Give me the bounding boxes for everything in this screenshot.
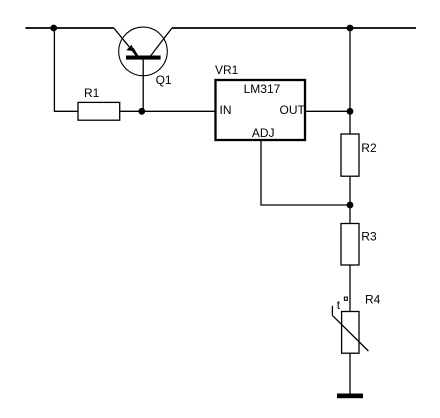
svg-text:Q1: Q1 bbox=[156, 73, 172, 87]
svg-text:LM317: LM317 bbox=[244, 82, 281, 96]
svg-text:VR1: VR1 bbox=[215, 63, 239, 77]
svg-text:R3: R3 bbox=[361, 230, 377, 244]
svg-text:R2: R2 bbox=[361, 141, 377, 155]
svg-text:R4: R4 bbox=[365, 293, 381, 307]
svg-text:R1: R1 bbox=[84, 86, 100, 100]
svg-text:IN: IN bbox=[220, 103, 232, 117]
svg-text:ADJ: ADJ bbox=[252, 126, 275, 140]
svg-text:OUT: OUT bbox=[280, 103, 306, 117]
